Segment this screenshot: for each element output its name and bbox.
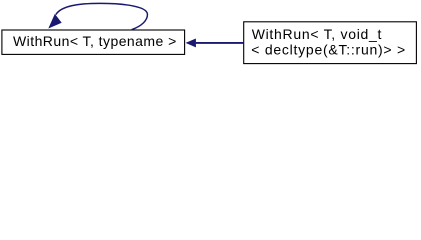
- self-loop edge on left node: [49, 3, 148, 29]
- node WithRun< T, typename >: [2, 30, 185, 54]
- svg-text:< decltype(&T::run)> >: < decltype(&T::run)> >: [251, 41, 406, 57]
- svg-text:WithRun< T, typename >: WithRun< T, typename >: [13, 33, 177, 49]
- svg-text:WithRun< T, void_t: WithRun< T, void_t: [252, 26, 382, 42]
- node WithRun< T, void_t< decltype(&T::run)> >: [244, 22, 417, 64]
- inheritance edge from right node to left node: [186, 39, 243, 47]
